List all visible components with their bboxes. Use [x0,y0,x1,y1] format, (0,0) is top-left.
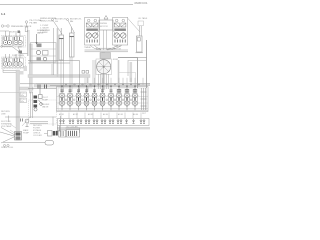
svg-text:LINE: LINE [1,113,6,115]
svg-text:A5 B5: A5 B5 [118,113,123,116]
end plate EP1 [141,88,147,110]
svg-text:OIL COOLER: OIL COOLER [66,127,78,129]
check valve c8 [122,99,124,101]
svg-text:REDUCTION: REDUCTION [40,21,53,23]
svg-text:SWING: SWING [100,23,107,25]
manifold block MB1 [100,53,111,59]
main control valve MCV [57,87,149,112]
wire right frame [118,40,147,88]
svg-text:PUMP: PUMP [42,99,49,101]
svg-text:OIL TANK: OIL TANK [138,17,148,20]
check valve c6 [106,99,108,101]
valve A1 [25,21,28,32]
wire pump1 out [1,30,29,56]
spool S5 [91,85,98,110]
check valve c1 [65,99,67,101]
drain stub left [56,126,61,132]
pipe return horizontal [34,85,92,88]
svg-text:MOTOR: MOTOR [100,26,108,28]
check valve c7 [114,99,116,101]
wire bus top of valve [0,61,150,93]
pilot valve assembly V1 [31,30,57,62]
check valve c2 [73,99,75,101]
gauge node N1 [25,119,29,127]
gauge G1 [1,25,9,27]
pipe center riser [102,52,106,90]
wire mid verticals [52,57,119,92]
drain valve DV1 [3,144,9,146]
junction J1 [21,119,23,122]
pipe main suction [16,70,20,140]
dashed enclosure DE1 [29,100,57,124]
spool S2 [67,85,74,110]
wire leaders tank [10,124,16,133]
label pilot [42,97,50,108]
wire cooler top [30,116,61,137]
svg-text:REG: REG [18,47,23,49]
wire gauge link [0,30,9,32]
filter F1 [45,141,54,146]
wire leader2 [68,21,75,34]
svg-text:TRAVEL: TRAVEL [84,46,91,49]
wire cooler row [44,128,80,134]
check valve c9 [130,99,132,101]
pipe elbow [20,66,28,75]
spool S8 [116,85,123,110]
node pivot1 [52,19,54,21]
pipe valve riser [29,44,32,93]
label list bottom [33,125,42,137]
spool S1 [59,85,66,110]
tank label block [1,111,12,128]
svg-text:A3 B3: A3 B3 [88,113,93,116]
spool S3 [75,85,82,110]
check valve c4 [90,99,92,101]
wire leader1 [53,21,62,35]
check valve c5 [98,99,100,101]
title rule [0,4,133,6]
pilot box PB1 [119,73,136,88]
svg-text:COOLER: COOLER [33,135,42,137]
node pivot2 [67,19,69,21]
svg-text:MOTOR: MOTOR [114,48,122,50]
wire spool risers [85,78,143,85]
junction dots bus [65,84,139,85]
bottom rail BR1 [58,119,150,126]
spool S10 [132,85,139,110]
svg-text:MPa: MPa [21,101,25,103]
wire drain [3,142,45,144]
pump unit PU1 [15,132,22,141]
wire corner right [128,61,147,77]
tick marks return [38,85,47,89]
cooler strip: check box [48,131,53,137]
pump group P1 [2,31,26,47]
fitting dark [18,31,21,34]
check fittings row [82,71,89,74]
svg-text:RH: RH [70,21,74,23]
svg-text:MPa: MPa [21,95,25,97]
spool S7 [108,85,115,110]
pipe valve top band [36,83,150,85]
pipe right riser [130,62,133,82]
check valve c3 [82,99,84,101]
spool S4 [83,85,90,110]
wire strainer [0,116,15,144]
wire joint drops [99,74,109,89]
wire travel converge [85,45,129,52]
svg-text:A1 B1: A1 B1 [59,113,64,116]
rotary joint RJ1 [96,59,119,75]
svg-text:INLET: INLET [10,32,16,34]
svg-text:STRAINER: STRAINER [1,122,12,125]
travel unit TM2 [113,18,128,46]
cylinder CYL1 [59,28,64,60]
travel unit TM1 [85,18,100,46]
spool S9 [124,85,131,110]
pipe delivery horizontal [28,75,90,78]
svg-text:A6 B6: A6 B6 [133,113,138,116]
cylinder CYL2 [70,27,75,57]
pipe tank bottom band [57,127,150,129]
swing assembly SM1 [96,16,116,51]
svg-text:4SMFC01: 4SMFC01 [134,1,148,5]
pilot filter column PF1 [5,88,56,126]
svg-text:VALVE: VALVE [42,105,49,108]
wire right top [127,17,148,32]
wire rail drops [61,113,141,119]
svg-text:1-1: 1-1 [1,12,6,16]
svg-text:LH: LH [55,21,58,23]
pipe cross band [20,87,34,90]
wire pump2 drains [3,69,16,73]
bypass valve dark marks [53,131,58,136]
svg-text:HYD TANK: HYD TANK [1,125,12,128]
svg-text:PRESSURE CHECK: PRESSURE CHECK [11,26,32,28]
filter box [59,130,66,137]
svg-text:VALVE: VALVE [37,31,44,34]
pump group P2 [2,54,26,69]
oil cooler CO1 [67,130,80,138]
wire cb1 drop [140,26,142,36]
label list L2 [40,25,51,34]
svg-text:PUMP: PUMP [23,132,30,134]
svg-text:A4 B4: A4 B4 [103,113,108,116]
spool S6 [99,85,106,110]
svg-text:FILTER: FILTER [30,23,38,25]
tank T1 [137,36,143,52]
svg-text:PUMP DRAIN: PUMP DRAIN [12,54,24,57]
wire v1 lines [54,28,58,77]
port labels row [59,113,147,116]
